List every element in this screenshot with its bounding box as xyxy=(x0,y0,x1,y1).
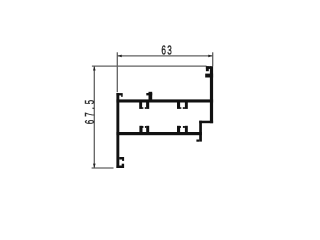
extension line top of dimension 67.5 xyxy=(92,65,207,67)
extension line left of dimension 63 xyxy=(116,52,118,92)
profile bottom-left C-hook xyxy=(116,157,124,168)
screw channel hooks above lower wall, pair 2 xyxy=(177,126,188,132)
screw channel hooks above lower wall, pair 1 xyxy=(139,126,149,132)
top-right C-hook xyxy=(205,66,213,77)
extension line bottom of dimension 67.5 xyxy=(92,167,114,169)
svg-text:67.5: 67.5 xyxy=(83,97,98,124)
extension line right of dimension 63 xyxy=(212,52,214,66)
screw channel hooks below upper wall, pair 1 xyxy=(139,103,149,109)
profile upper horizontal wall xyxy=(116,99,213,102)
profile left vertical wall xyxy=(116,93,119,168)
profile top-left lip with tooth xyxy=(116,93,122,97)
profile right vertical wall xyxy=(210,66,213,123)
screw channel hooks below upper wall, pair 2 xyxy=(177,103,188,109)
profile lower horizontal wall xyxy=(116,132,201,135)
right side step with bottom hook xyxy=(196,121,213,142)
dimension line 63 with arrowheads xyxy=(117,55,212,58)
up-hook on upper wall xyxy=(146,92,152,100)
svg-text:63: 63 xyxy=(161,44,173,58)
dimension line 67.5 with arrowheads xyxy=(93,66,96,168)
